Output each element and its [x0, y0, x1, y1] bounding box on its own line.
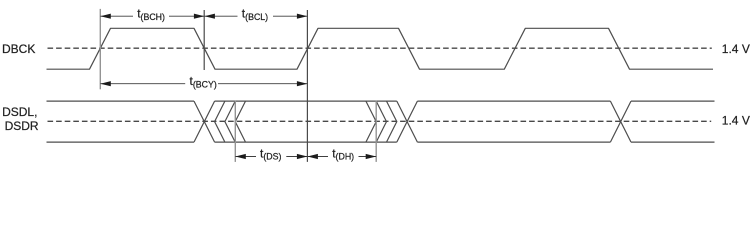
svg-text:DSDR: DSDR: [5, 119, 39, 133]
bus transition group 2: full crossover X2: [397, 101, 418, 142]
svg-text:1.4 V: 1.4 V: [722, 114, 750, 128]
t(BCY) dimension shafts: [100, 83, 307, 85]
svg-text:DSDL,: DSDL,: [2, 105, 37, 119]
t(BCL) dimension shafts: [204, 15, 307, 17]
t(BCH) dimension shafts: [100, 15, 204, 17]
t(BCL) left arrowhead: [204, 14, 215, 19]
t(BCY) right arrowhead: [297, 81, 308, 86]
DBCK mid-level dashed line (1.4 V threshold): [48, 47, 712, 49]
bus transition group 2: chevron at 396.8: [387, 101, 397, 142]
t(BCH) left arrowhead: [100, 14, 111, 19]
t(BCH) right arrowhead: [194, 14, 205, 19]
t(DS) right arrowhead: [297, 154, 308, 159]
cursor line 1 at first DBCK rising edge: [99, 9, 101, 89]
svg-text:1.4 V: 1.4 V: [722, 42, 750, 56]
t(BCL) right arrowhead: [297, 14, 308, 19]
DSDL/DSDR bus bottom rail segments: [47, 141, 715, 143]
bus transition group 1: full crossover X1: [194, 101, 215, 142]
DSDL/DSDR mid-level dashed line (1.4 V threshold): [48, 120, 712, 122]
cursor line 4 at end of data setup transition: [234, 101, 236, 162]
svg-text:DBCK: DBCK: [2, 42, 35, 56]
t(DS) dimension shafts: [235, 156, 307, 158]
bus transition group 2: chevron at 376.2: [366, 101, 376, 142]
bus transition group 1: chevron at 214.6: [215, 101, 225, 142]
bus transition group 1: chevron at 235.2: [235, 101, 245, 142]
bus transition group 1: chevron at 224.9: [225, 101, 235, 142]
t(DH) left arrowhead: [307, 154, 318, 159]
DSDL/DSDR bus top rail segments: [47, 100, 715, 102]
t(BCY) left arrowhead: [100, 81, 111, 86]
cursor line 2 at first DBCK falling edge: [203, 10, 205, 70]
bus transition group 2: chevron at 386.5: [376, 101, 386, 142]
cursor line 3 at second DBCK rising edge (full height): [306, 10, 308, 162]
t(DH) right arrowhead: [366, 154, 377, 159]
t(DH) dimension shafts: [307, 156, 376, 158]
cursor line 5 at start of data hold transition: [375, 101, 377, 162]
DBCK clock waveform: [47, 28, 714, 69]
t(DS) left arrowhead: [235, 154, 246, 159]
bus full crossover X3: [610, 101, 631, 142]
